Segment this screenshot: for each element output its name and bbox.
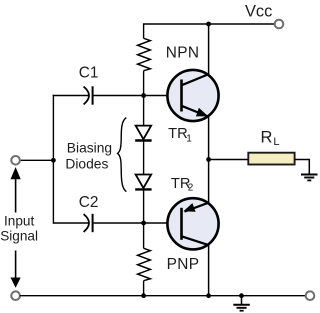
- wire (C2 left lead): [53, 222, 88, 224]
- wire (bottom rail): [20, 295, 306, 297]
- svg-text:L: L: [273, 136, 279, 148]
- wire (between diodes): [143, 141, 145, 175]
- wire (top Vcc rail): [144, 23, 275, 25]
- svg-text:R: R: [261, 129, 273, 147]
- Vcc terminal: [275, 20, 284, 29]
- node (TR2 base / C2 junction): [141, 221, 146, 226]
- input signal arrow (down): [11, 251, 21, 288]
- node (bottom rail / ground): [239, 293, 244, 298]
- transistor TR2 (PNP): [167, 198, 218, 249]
- wire (left input riser): [52, 95, 54, 224]
- node (output junction): [206, 157, 211, 162]
- input signal arrow (up): [11, 167, 21, 213]
- wire (C2 right lead): [94, 222, 144, 224]
- ground (bottom): [233, 296, 250, 311]
- wire (C1 left lead): [53, 95, 89, 97]
- node (bottom rail / TR2 collector): [206, 293, 211, 298]
- transistor TR1 (NPN): [167, 70, 218, 121]
- node (TR1 base / C1 junction): [141, 93, 146, 98]
- wire (output node down to TR2 emitter): [208, 160, 210, 204]
- wire (resistor to base junction): [143, 71, 145, 96]
- svg-text:1: 1: [186, 133, 192, 144]
- output terminal (bottom right): [306, 291, 315, 300]
- input terminal (bottom): [11, 291, 20, 300]
- svg-text:Biasing: Biasing: [67, 140, 112, 155]
- node (bottom rail / resistor): [141, 293, 146, 298]
- svg-text:TR: TR: [168, 126, 188, 142]
- diode D2: [135, 175, 151, 190]
- resistor RL: [248, 153, 294, 165]
- node (input junction): [51, 158, 56, 163]
- wire (rail junction down to TR1 collector): [208, 24, 210, 74]
- svg-text:NPN: NPN: [166, 45, 200, 62]
- wire (C1 right lead): [94, 95, 144, 97]
- svg-text:Diodes: Diodes: [65, 156, 108, 171]
- wire (bottom resistor to rail): [143, 281, 145, 296]
- diode D1: [135, 126, 151, 141]
- wire (TR2 base lead): [144, 222, 168, 224]
- resistor (bottom bias resistor): [138, 248, 151, 280]
- wire (TR1 emitter to output node): [208, 117, 210, 160]
- brace (biasing diodes): [118, 118, 127, 192]
- resistor (top bias resistor): [138, 38, 151, 70]
- wire (TR1 base lead): [144, 95, 168, 97]
- svg-text:Signal: Signal: [0, 229, 38, 244]
- svg-text:C2: C2: [79, 194, 99, 211]
- input terminal (top): [11, 156, 20, 165]
- wire (output node to RL): [209, 159, 249, 161]
- svg-text:C1: C1: [79, 64, 99, 81]
- wire (TR2 collector to bottom rail): [208, 245, 210, 295]
- svg-text:Vcc: Vcc: [245, 2, 272, 20]
- wire (C2 junction to bottom resistor): [143, 223, 145, 248]
- wire (junction to diode D1): [143, 96, 145, 126]
- wire (input terminal to riser): [20, 159, 54, 161]
- wire (RL to ground corner): [295, 160, 310, 175]
- svg-text:Input: Input: [4, 214, 34, 229]
- node (collector rail junction): [206, 22, 211, 27]
- svg-text:PNP: PNP: [167, 256, 200, 273]
- capacitor C2: [84, 214, 93, 232]
- ground (load): [301, 175, 318, 181]
- wire (rail corner to resistor): [143, 23, 145, 38]
- wire (diode D2 to C2 junction): [143, 189, 145, 223]
- svg-text:2: 2: [188, 183, 194, 194]
- capacitor C1: [84, 86, 93, 104]
